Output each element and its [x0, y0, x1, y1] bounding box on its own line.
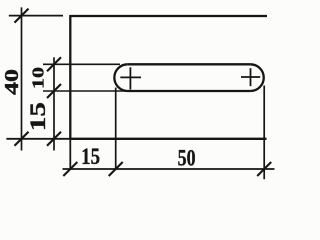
svg-text:50: 50 [178, 146, 196, 171]
bottom dimension line 15/50 (horizontal) [63, 168, 275, 170]
tick slash 15 bottom [47, 132, 61, 146]
left edge extension line (down to bottom dimension) [69, 140, 71, 169]
dimension line 10/15 (vertical) [53, 57, 55, 150]
slot right arc [250, 64, 263, 91]
slot bottom extension line [43, 90, 128, 92]
tick slash 10/15 middle [47, 84, 61, 98]
tick slash 40 bottom [15, 132, 29, 146]
svg-text:40: 40 [1, 69, 23, 95]
top edge extension line (left) [9, 15, 63, 17]
tick slash 40 top [15, 9, 29, 23]
rectangle top edge [70, 15, 267, 17]
bottom edge extension line (left) [6, 138, 70, 140]
slot top extension line [43, 63, 120, 65]
tick slash bottom-15/50 middle [109, 162, 123, 176]
paper background [0, 0, 280, 189]
dimension line 40 (vertical) [21, 7, 23, 150]
svg-text:15: 15 [81, 143, 100, 169]
slot bottom edge [128, 90, 251, 92]
extension line at slot right end (down) [263, 86, 265, 180]
slot left arc [114, 64, 127, 91]
rectangle bottom edge [70, 138, 266, 140]
tick slash 10 top [47, 57, 61, 71]
left center mark (cross) [120, 67, 141, 89]
extension line at slot left end (down) [115, 88, 117, 169]
tick slash 50 right [257, 162, 271, 176]
svg-text:10: 10 [29, 67, 48, 89]
svg-text:15: 15 [25, 102, 50, 131]
right center mark (cross) [241, 68, 260, 86]
slot top edge [128, 63, 251, 65]
rectangle left edge [69, 15, 71, 140]
tick slash bottom-15 left [63, 162, 77, 176]
